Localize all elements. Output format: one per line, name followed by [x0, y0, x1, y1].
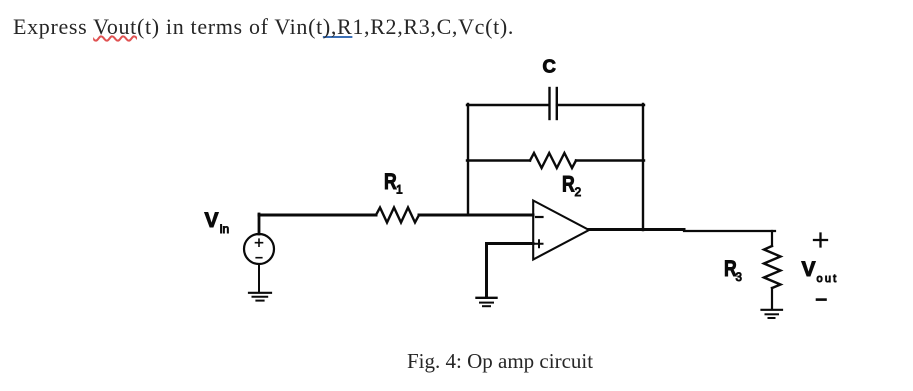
label - (Vout polarity)	[817, 298, 826, 301]
resistor R1	[376, 208, 419, 223]
wire : capacitor to right feedback vertical	[557, 104, 644, 106]
wire : Vin source to ground	[258, 264, 260, 292]
wire : R3 vertical lead top	[771, 231, 773, 246]
wire : Vin source vertical lead	[258, 214, 261, 234]
label R3	[724, 257, 742, 284]
capacitor C	[550, 88, 557, 119]
svg-text:out: out	[817, 273, 839, 285]
resistor R3	[764, 246, 781, 288]
wire : top feedback left segment to capacitor	[467, 104, 549, 106]
ground : below Vin source	[249, 293, 271, 301]
label C	[543, 56, 556, 77]
op-amp U1	[533, 201, 589, 260]
wire : R1 to op-amp inverting input	[419, 214, 533, 217]
svg-text:3: 3	[736, 272, 742, 284]
wire : R3 to ground	[771, 288, 773, 309]
ground : non-inverting input	[477, 298, 497, 306]
svg-text:R: R	[384, 170, 397, 194]
svg-text:1: 1	[396, 183, 403, 197]
wire : right feedback vertical	[642, 104, 644, 230]
ground : below R3	[762, 310, 783, 318]
svg-text:in: in	[220, 222, 229, 236]
caption	[407, 349, 593, 374]
node A : inverting input net (Vin source top corner)	[0, 0, 1, 1]
svg-text:V: V	[205, 209, 219, 232]
resistor R2	[530, 153, 576, 168]
label R1	[384, 170, 403, 196]
svg-text:C: C	[543, 56, 556, 77]
svg-text:2: 2	[575, 185, 582, 199]
wire : R2 branch left segment	[467, 159, 530, 161]
svg-text:V: V	[802, 258, 816, 281]
wire : output to R3 top	[684, 230, 775, 232]
wire : Vin source to R1	[259, 214, 376, 217]
label + (Vout polarity)	[814, 234, 827, 247]
wire : R2 to right feedback vertical	[576, 159, 644, 161]
label R2	[562, 173, 582, 199]
label Vout	[802, 258, 839, 285]
title text	[13, 14, 514, 40]
voltage source Vin	[244, 234, 274, 264]
wire : left feedback vertical	[467, 104, 469, 215]
wire : op-amp output segment	[589, 228, 684, 231]
label Vin	[205, 209, 230, 236]
svg-text:R: R	[562, 173, 575, 197]
wire : non-inverting input lead	[487, 244, 534, 298]
